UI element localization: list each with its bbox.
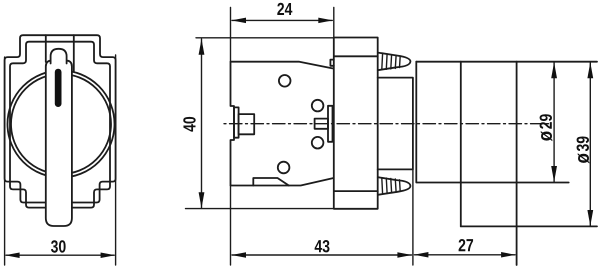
knob wing edge right	[73, 35, 75, 71]
dim 30 arrow left	[5, 252, 20, 258]
dim o29 arrow top	[551, 62, 557, 78]
lever indicator black bar	[55, 69, 62, 107]
dim 30 line	[6, 254, 114, 256]
contact block body outline	[231, 62, 333, 186]
flange internal line top	[334, 55, 378, 57]
dim 40 line	[186, 38, 334, 209]
dim 30 arrow right	[101, 252, 116, 258]
right terminal plate	[328, 106, 333, 142]
mounting flange	[334, 38, 378, 209]
dim 27 line	[414, 254, 515, 256]
dim 27 arrow right	[501, 252, 515, 257]
head small cylinder rect A	[416, 62, 568, 183]
dim 24 arrow left	[232, 18, 247, 24]
dim 27 arrow left	[414, 252, 429, 257]
dim o39 arrow bottom	[587, 210, 593, 226]
screw hole bottom	[278, 162, 290, 174]
dim text 43	[315, 240, 330, 252]
lever top tab (arch, white filled)	[51, 49, 67, 64]
screw hole top	[279, 75, 291, 87]
anti-rotation clip top	[378, 53, 411, 71]
head top line / extension	[416, 61, 597, 63]
knob inner circle	[11, 74, 111, 174]
dim o39 arrow top	[587, 62, 593, 78]
dim 43 arrow left	[232, 252, 247, 258]
dim o29 line	[553, 62, 555, 181]
dim text 30	[51, 240, 66, 252]
head bottom line	[461, 225, 597, 227]
screw hole right upper	[312, 100, 324, 112]
center line	[224, 123, 550, 125]
right terminal screw block	[315, 119, 328, 129]
bottom latch tab	[253, 178, 288, 186]
dim 24 line	[232, 19, 332, 21]
dim 30 extension line right	[115, 55, 117, 265]
dim 24 arrow right	[318, 18, 333, 24]
divider between cylinders	[460, 62, 462, 227]
dim 40 arrow top	[199, 39, 205, 55]
anti-rotation clip bottom	[378, 177, 411, 195]
dim 43 line	[232, 254, 412, 256]
knob outer circle	[8, 71, 115, 178]
dim 40 arrow bottom	[199, 192, 205, 208]
dim 43 arrow right	[397, 252, 412, 258]
actuator neck cylinder	[378, 78, 413, 170]
dim 43 extension right / cylinder edge extension	[412, 169, 414, 265]
bezel inner stepped contour	[10, 42, 110, 208]
lever left edge upper part	[45, 35, 47, 62]
screw hole right lower	[312, 137, 324, 149]
lever handle body (white filled, in front of knob)	[46, 61, 72, 227]
flange top-left tab	[330, 60, 333, 66]
bezel outer stepped contour	[5, 35, 116, 202]
dim text o29	[540, 114, 553, 141]
left terminal narrow plate	[234, 107, 239, 137]
dim o39 line	[589, 62, 591, 225]
shared extension / body left edge	[230, 7, 232, 265]
dim 24 extension right	[333, 7, 335, 37]
flange internal line bottom	[334, 190, 378, 192]
dim text o39	[577, 136, 590, 163]
head big cylinder right edge	[516, 62, 518, 265]
left terminal screw block	[239, 114, 255, 134]
dim text 24	[277, 3, 292, 15]
dim text 27	[459, 239, 473, 251]
dim text 40	[183, 117, 195, 132]
dim o29 arrow bottom	[551, 166, 557, 182]
dim 30 extension line left	[4, 57, 6, 265]
